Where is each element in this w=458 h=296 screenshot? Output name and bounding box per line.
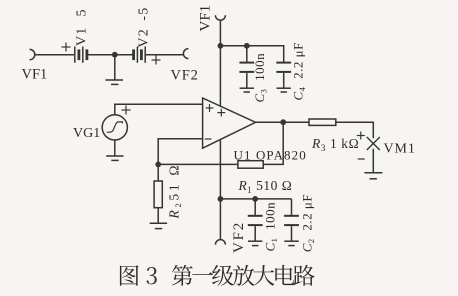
capacitor C2 (284, 199, 299, 241)
svg-text:V15: V15 (75, 8, 90, 46)
svg-text:U1 OPA820: U1 OPA820 (234, 148, 307, 163)
wire down to VF2 terminal (219, 199, 221, 240)
ground C1 (248, 241, 262, 245)
node feedback (155, 162, 161, 168)
svg-text:VM1: VM1 (384, 141, 416, 156)
wire R2 to ground (157, 208, 159, 223)
wire output to R3 (283, 121, 309, 123)
VF2 rail (220, 198, 291, 200)
op-amp supply plus mark (217, 109, 225, 117)
node VF1 rail left (218, 43, 224, 49)
wire op-amp output (256, 121, 284, 123)
op-amp minus mark (205, 138, 212, 140)
resistor R1 (238, 161, 263, 169)
ground C2 (284, 241, 298, 245)
wire VF1 to V1 (35, 54, 74, 56)
VF2 bottom terminal (215, 240, 225, 245)
V2 plus sign (152, 56, 161, 65)
svg-text:R251 Ω: R251 Ω (167, 163, 184, 220)
wire VG1 to op-amp plus input (115, 104, 203, 115)
wire VM1 to ground (372, 149, 374, 173)
svg-text:VG1: VG1 (73, 126, 100, 141)
wire R3 to VM1 (336, 122, 374, 138)
op-amp V+ pin wire (219, 46, 221, 106)
op-amp V- pin wire (219, 140, 221, 199)
svg-text:C4 2.2 μF: C4 2.2 μF (291, 42, 307, 100)
node VF2 rail left (218, 196, 224, 202)
op-amp U1 triangle (203, 98, 256, 148)
svg-text:R1 510 Ω: R1 510 Ω (238, 178, 293, 195)
node output (280, 119, 286, 125)
VF2 output terminal (183, 49, 188, 59)
resistor R3 (309, 119, 336, 125)
wire minus input (158, 139, 202, 165)
battery V1 (75, 47, 87, 63)
node battery center (112, 52, 118, 58)
VG1 plus sign (122, 106, 131, 115)
V1 plus sign (62, 43, 71, 52)
probe VM1 cross (367, 137, 380, 150)
ground R2 (150, 223, 167, 228)
svg-text:R3 1 kΩ: R3 1 kΩ (311, 136, 359, 153)
VM1 minus sign (358, 158, 365, 160)
wire R1 to feedback node (158, 163, 238, 165)
svg-text:VF1: VF1 (22, 67, 48, 83)
wire VF1 top down to rail (219, 20, 221, 46)
op-amp plus mark (206, 104, 214, 112)
wire node to V2 (115, 54, 133, 56)
ground VG1 (106, 156, 123, 160)
VF1 input terminal (30, 49, 35, 59)
ground C3 (240, 88, 254, 92)
caption 图3 第一级放大电路 (120, 265, 315, 286)
VM1 plus sign (357, 132, 365, 140)
battery V2 (134, 47, 146, 63)
capacitor C4 (276, 63, 291, 88)
svg-text:C2 2.2 μF: C2 2.2 μF (300, 194, 316, 252)
svg-text:VF2: VF2 (231, 221, 247, 253)
ground C4 (277, 88, 291, 92)
node C3 top (244, 43, 250, 49)
wire V2 to VF2 (146, 54, 184, 56)
VF1 top terminal (215, 15, 225, 20)
svg-text:VF1: VF1 (197, 5, 213, 32)
wire VG1 to ground (114, 140, 116, 156)
svg-text:VF2: VF2 (171, 68, 199, 84)
node C1 top (252, 196, 258, 202)
capacitor C1 (248, 199, 263, 241)
svg-text:V2-5: V2-5 (137, 7, 152, 48)
svg-text:C1 100n: C1 100n (263, 202, 279, 252)
wire node to ground (114, 55, 116, 80)
svg-text:C3 100n: C3 100n (252, 53, 268, 103)
ground battery center (105, 80, 123, 84)
VG1 waveform (107, 122, 123, 132)
source VG1 (102, 115, 127, 140)
capacitor C3 (239, 46, 254, 88)
wire rail to C4 corner (247, 46, 284, 62)
wire output down to R1 (263, 122, 283, 164)
resistor R2 (154, 181, 162, 208)
wire rail to C3 (220, 45, 246, 47)
ground VM1 (364, 173, 382, 179)
wire node to R2 (157, 164, 159, 181)
wire V1 to center node (88, 54, 115, 56)
